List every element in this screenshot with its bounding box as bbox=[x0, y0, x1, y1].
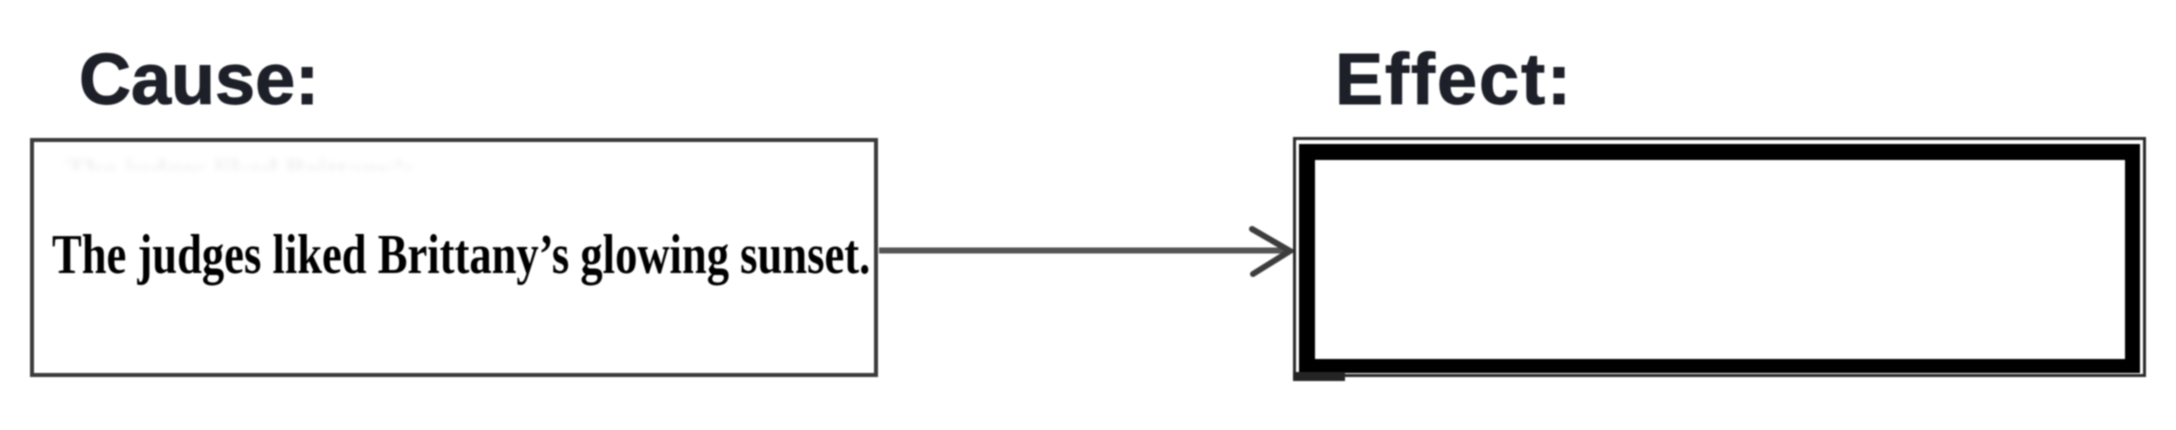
effect box inner thick border bbox=[1299, 144, 2140, 373]
heading Effect bbox=[1335, 44, 1573, 116]
heading Cause bbox=[79, 44, 319, 116]
arrowhead chevron bbox=[1252, 229, 1290, 274]
cause box bbox=[30, 138, 878, 377]
effect box outer bbox=[1293, 137, 2146, 377]
shadow tab bottom-left of effect box bbox=[1293, 372, 1345, 381]
cause text bbox=[52, 227, 870, 284]
wire shaft bbox=[879, 248, 1289, 254]
ghost erased text bbox=[66, 153, 490, 170]
